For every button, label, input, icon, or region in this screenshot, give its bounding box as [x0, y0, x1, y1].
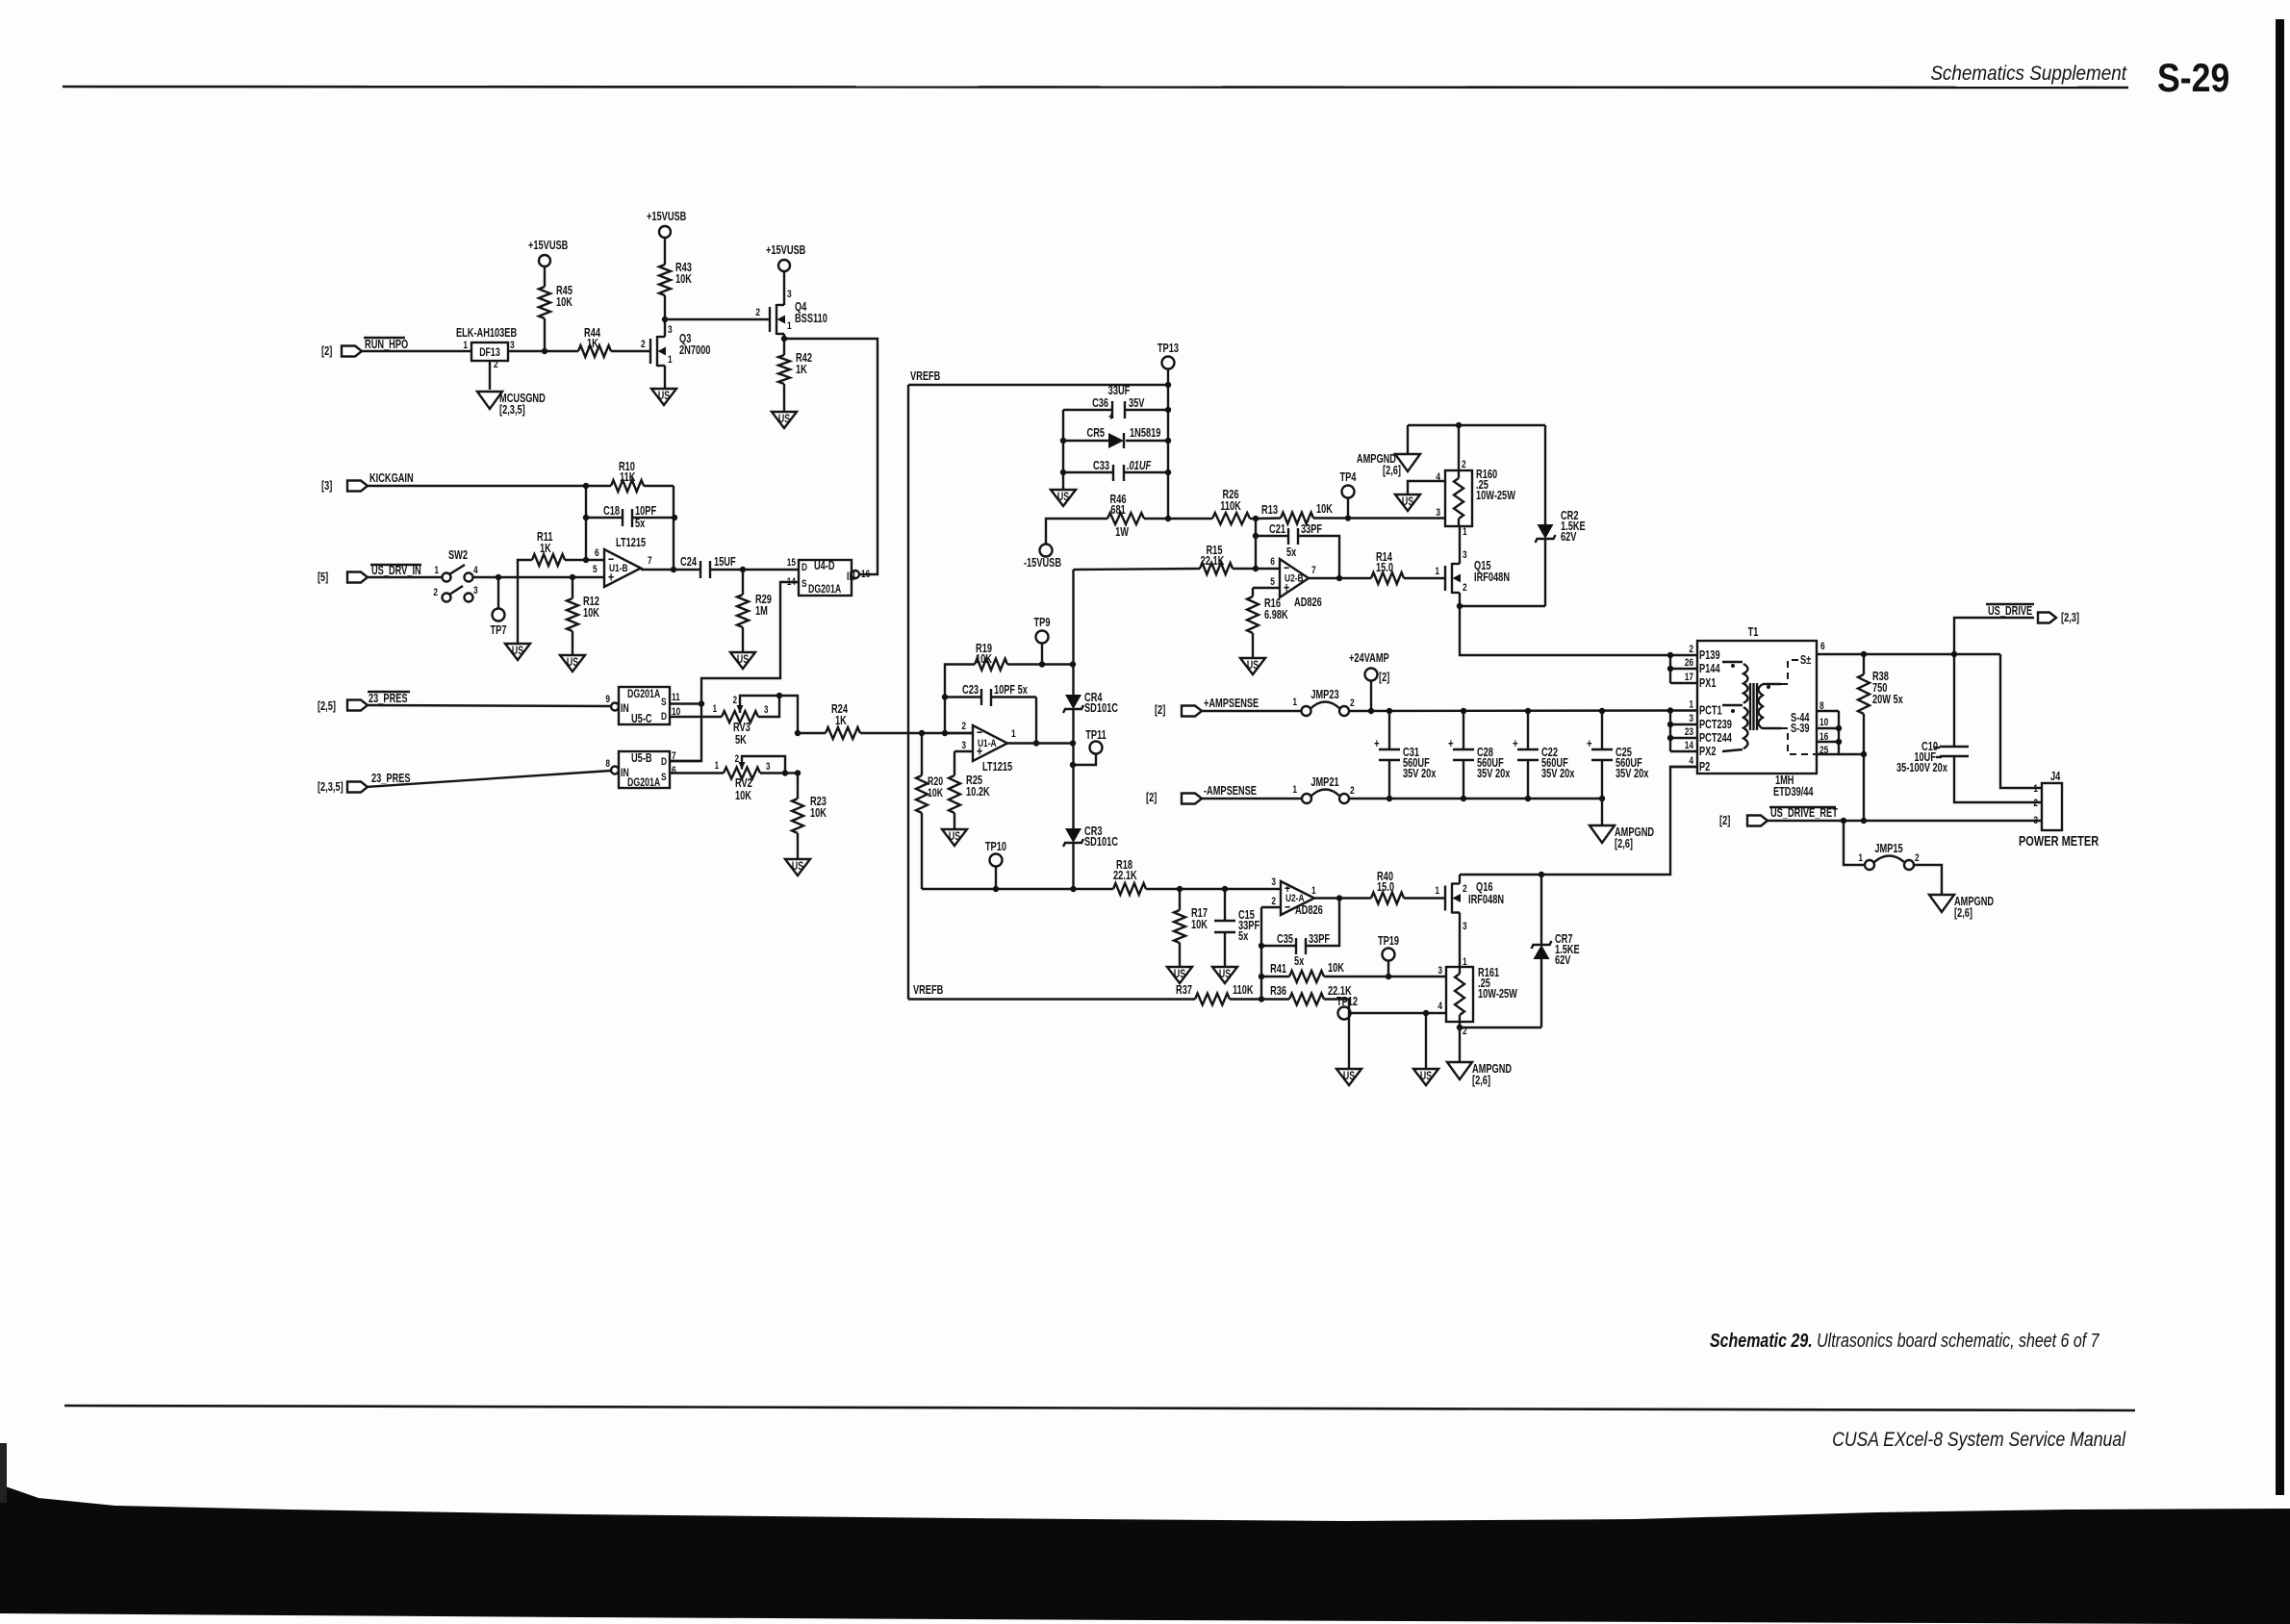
- capacitor C18 10PF 5%: [586, 517, 623, 519]
- ground US (TP12): [1413, 1069, 1438, 1085]
- T1 pin 25: [1817, 753, 1839, 755]
- svg-text:35V 20x: 35V 20x: [1616, 768, 1649, 781]
- potentiometer RV3 5K: [722, 711, 758, 723]
- svg-text:C18: C18: [603, 505, 620, 519]
- svg-text:LT1215: LT1215: [982, 761, 1012, 774]
- footer rule: [64, 1406, 2135, 1410]
- svg-text:RUN_HPO: RUN_HPO: [365, 339, 409, 352]
- svg-text:US_DRIVE_RET: US_DRIVE_RET: [1770, 807, 1838, 821]
- wire CR7 bottom to R161: [1460, 1027, 1541, 1028]
- svg-text:R37: R37: [1176, 984, 1192, 998]
- T1 secondary dashed lower: [1781, 728, 1817, 754]
- svg-text:PCT244: PCT244: [1699, 732, 1733, 746]
- svg-text:DF13: DF13: [479, 347, 500, 360]
- svg-text:TP7: TP7: [491, 624, 507, 638]
- resistor R46 681 1W: [1107, 513, 1144, 524]
- junction C22 bottom: [1525, 796, 1531, 801]
- capacitor C15 33PF 5%: [1224, 889, 1226, 921]
- wire R160 pin4 to ground: [1408, 481, 1445, 495]
- svg-text:1: 1: [1435, 566, 1439, 578]
- svg-text:US: US: [512, 646, 523, 658]
- wire drain row to P2: [1460, 767, 1697, 875]
- ground AMPGND (top): [1395, 454, 1420, 471]
- T1 secondary dashed upper: [1781, 660, 1798, 684]
- resistor R42 1K: [783, 339, 785, 355]
- junction RV2 wiper: [782, 770, 788, 775]
- junction R45 bottom: [542, 348, 547, 354]
- testpoint TP13: [1162, 357, 1175, 369]
- junction R20 top: [919, 730, 925, 736]
- junction R38 top: [1861, 651, 1867, 657]
- junction S-bus: [699, 700, 704, 706]
- junction +24VAMP tap: [1368, 708, 1374, 714]
- svg-text:9: 9: [605, 694, 610, 706]
- svg-text:RV3: RV3: [733, 722, 751, 735]
- wire U1-B out to C24: [641, 569, 674, 571]
- svg-text:[2]: [2]: [1379, 672, 1390, 685]
- junction rail/R160: [1456, 422, 1462, 428]
- svg-text:3: 3: [961, 740, 966, 752]
- capacitor C10 10UF 35-100V: [1940, 746, 1969, 748]
- svg-text:TP9: TP9: [1034, 617, 1051, 630]
- wire +AMPSENSE to JMP23: [1202, 710, 1301, 712]
- junction R38 bottom: [1861, 751, 1867, 757]
- svg-text:U4-D: U4-D: [814, 560, 835, 573]
- svg-text:C21: C21: [1269, 523, 1285, 537]
- svg-text:U5-C: U5-C: [631, 713, 652, 726]
- svg-text:S: S: [661, 772, 667, 784]
- svg-text:17: 17: [1685, 672, 1694, 684]
- ground AMPGND (caps): [1590, 825, 1615, 843]
- svg-text:10K: 10K: [810, 807, 827, 821]
- resistor R29 1M: [742, 570, 744, 595]
- power -15VUSB: [1040, 545, 1053, 557]
- svg-text:Schematics Supplement: Schematics Supplement: [1930, 63, 2127, 85]
- junction C28 bottom: [1461, 796, 1466, 801]
- svg-text:2: 2: [433, 587, 438, 599]
- testpoint TP19: [1387, 960, 1389, 977]
- ground US (R16): [1240, 658, 1265, 674]
- svg-text:SD101C: SD101C: [1084, 836, 1118, 850]
- wire pin25 row: [1839, 753, 1864, 755]
- svg-text:3: 3: [473, 585, 478, 597]
- svg-text:5x: 5x: [635, 518, 646, 531]
- svg-text:8: 8: [1819, 700, 1824, 713]
- svg-text:C35: C35: [1277, 933, 1293, 947]
- potentiometer RV2 10K: [724, 768, 760, 779]
- svg-text:10: 10: [1819, 717, 1829, 729]
- diode CR7 1.5KE 62V: [1540, 875, 1542, 945]
- svg-text:R36: R36: [1270, 985, 1286, 999]
- connector KICKGAIN: [347, 481, 368, 492]
- svg-text:P139: P139: [1699, 649, 1720, 663]
- T1 pin 4 P2: [1670, 766, 1697, 768]
- svg-text:1N5819: 1N5819: [1130, 427, 1160, 441]
- junction T1 PCT239: [1667, 722, 1673, 727]
- wire Q3 drain to Q4 gate: [665, 318, 770, 320]
- junction JMP15 tap: [1841, 818, 1846, 824]
- wire C23 to output: [1035, 698, 1037, 744]
- transistor Q15 IRF048N: [1444, 566, 1446, 591]
- junction out/C21: [1336, 575, 1342, 581]
- svg-text:3: 3: [1463, 549, 1467, 562]
- T1 pin 3 PCT239: [1670, 723, 1697, 725]
- svg-text:US: US: [1057, 492, 1069, 504]
- svg-text:10K: 10K: [928, 788, 944, 800]
- resistor R26 110K: [1168, 518, 1212, 520]
- junction R36 row: [1259, 996, 1264, 1002]
- diode CR2 1.5KE 62V: [1544, 425, 1546, 524]
- wire U1-A out to rail: [1007, 742, 1073, 744]
- svg-text:3: 3: [1463, 921, 1467, 933]
- svg-text:1: 1: [713, 702, 717, 715]
- op-amp U1-B LT1215: [604, 549, 641, 587]
- svg-text:4: 4: [1689, 755, 1693, 768]
- svg-text:PCT239: PCT239: [1699, 719, 1732, 732]
- junction R15/pin6: [1253, 566, 1259, 571]
- power +15VUSB (Q4): [778, 260, 790, 271]
- transistor Q3 2N7000: [649, 339, 651, 364]
- svg-text:7: 7: [1311, 565, 1316, 577]
- power +15VUSB (R43): [659, 226, 671, 238]
- svg-text:CR5: CR5: [1087, 427, 1105, 441]
- junction sec bus 16: [1836, 739, 1842, 745]
- wire R18 row left: [922, 888, 1113, 890]
- transistor Q16 IRF048N: [1444, 886, 1446, 911]
- wire R11 left to ground: [518, 560, 532, 644]
- wire Q15 source to T1 P139: [1460, 606, 1670, 655]
- junction CR5 left: [1060, 438, 1066, 444]
- svg-text:PX2: PX2: [1699, 746, 1716, 759]
- svg-text:[2,6]: [2,6]: [1383, 465, 1401, 478]
- T1 pin 17 PX1: [1670, 682, 1697, 684]
- wire VREFB top: [908, 384, 1169, 386]
- svg-text:1: 1: [668, 354, 673, 367]
- svg-text:15UF: 15UF: [714, 556, 736, 570]
- junction TP9: [1039, 661, 1045, 667]
- svg-text:2: 2: [733, 694, 737, 706]
- svg-text:3: 3: [1689, 713, 1693, 725]
- resistor R18 22.1K: [1113, 883, 1146, 895]
- T1 pin 1 PCT1: [1670, 709, 1697, 711]
- T1 pin 2 P139: [1670, 654, 1697, 656]
- svg-text:D: D: [801, 562, 807, 574]
- svg-text:R13: R13: [1261, 504, 1278, 518]
- svg-text:10W-25W: 10W-25W: [1478, 988, 1517, 1002]
- junction rail/RV2: [795, 770, 801, 775]
- svg-text:+15VUSB: +15VUSB: [766, 244, 805, 258]
- svg-text:3: 3: [787, 289, 792, 301]
- svg-text:[2,3]: [2,3]: [2061, 612, 2079, 625]
- svg-text:25: 25: [1819, 745, 1829, 757]
- junction C24/R29: [740, 567, 746, 572]
- pin8 bubble U5-B: [611, 767, 619, 774]
- wire pin6 row: [1864, 653, 2000, 655]
- op-amp U2-B AD826: [1280, 559, 1309, 597]
- svg-text:SW2: SW2: [448, 549, 468, 563]
- ground US (R12): [560, 655, 585, 672]
- svg-text:2: 2: [494, 359, 498, 371]
- svg-text:2: 2: [961, 721, 966, 733]
- svg-text:C36: C36: [1092, 397, 1108, 411]
- junction C36 right: [1165, 407, 1171, 413]
- wire JMP23 to caps: [1349, 709, 1670, 712]
- resistor R25 10.2K: [954, 751, 955, 775]
- T1 pin 10: [1817, 727, 1839, 729]
- ground US (R11): [505, 644, 530, 660]
- capacitor C35 33PF 5%: [1261, 945, 1296, 947]
- wire JMP15 stem: [1844, 821, 1865, 865]
- junction R41 row: [1259, 974, 1264, 979]
- resistor R15 22.1K: [1074, 569, 1201, 570]
- svg-text:S: S: [801, 578, 807, 591]
- svg-text:D: D: [661, 756, 667, 769]
- op-amp U2-A AD826: [1281, 881, 1314, 915]
- T1 left bus upper: [1669, 655, 1671, 683]
- svg-text:[2,3,5]: [2,3,5]: [318, 781, 343, 795]
- rail right (C36 cluster): [1167, 385, 1169, 519]
- junction C28 top: [1461, 708, 1466, 714]
- svg-text:5x: 5x: [1286, 546, 1297, 560]
- svg-text:10W-25W: 10W-25W: [1476, 490, 1515, 503]
- wire node down to C18: [585, 486, 587, 518]
- svg-text:ELK-AH103EB: ELK-AH103EB: [456, 327, 517, 341]
- svg-text:10K: 10K: [1316, 503, 1333, 517]
- wire Q16 source to R161: [1459, 913, 1461, 968]
- svg-text:US: US: [949, 831, 960, 844]
- wire RV3 to R24 rail: [779, 696, 798, 733]
- resistor R44 1K: [578, 345, 611, 357]
- wire pin2 lead: [945, 732, 973, 734]
- svg-text:JMP15: JMP15: [1874, 843, 1902, 856]
- diode CR4 SD101C: [1065, 695, 1081, 709]
- svg-text:1: 1: [1292, 784, 1297, 797]
- svg-text:11K: 11K: [620, 471, 635, 485]
- rail VREFB vertical: [907, 385, 909, 1000]
- svg-text:10K: 10K: [976, 653, 992, 667]
- svg-text:US: US: [1174, 969, 1185, 981]
- svg-text:1: 1: [1292, 697, 1297, 709]
- wire RUN_HPO to DF13: [362, 350, 471, 352]
- svg-text:110K: 110K: [1220, 500, 1241, 514]
- wire pin3 lead: [954, 750, 973, 752]
- analog switch U5-B DG201A: [619, 751, 670, 788]
- wire Q4 source down: [783, 334, 785, 339]
- diode CR5 1N5819: [1063, 440, 1108, 442]
- svg-text:US: US: [1247, 660, 1259, 672]
- junction C25 top: [1599, 708, 1605, 714]
- svg-text:JMP23: JMP23: [1310, 689, 1338, 702]
- right edge scan bar: [2276, 19, 2284, 1495]
- svg-text:TP11: TP11: [1085, 729, 1107, 743]
- resistor R17 10K: [1179, 889, 1181, 910]
- svg-text:6: 6: [1270, 556, 1275, 569]
- svg-text:ETD39/44: ETD39/44: [1773, 786, 1814, 799]
- testpoint TP4: [1347, 497, 1349, 519]
- svg-text:+15VUSB: +15VUSB: [528, 240, 568, 253]
- svg-text:33PF: 33PF: [1301, 523, 1322, 537]
- svg-text:PCT1: PCT1: [1699, 704, 1722, 718]
- svg-text:15: 15: [787, 557, 797, 570]
- op-amp U1-A LT1215: [973, 725, 1007, 761]
- svg-text:VREFB: VREFB: [913, 984, 943, 998]
- capacitor C36 33UF 35V: [1063, 409, 1112, 411]
- junction C22 top: [1525, 708, 1531, 714]
- svg-text:US_DRV_IN: US_DRV_IN: [371, 565, 421, 578]
- svg-text:20W 5x: 20W 5x: [1872, 694, 1904, 707]
- junction C15 top: [1222, 886, 1228, 892]
- wire U5-C pin10 to RV3: [670, 716, 722, 718]
- ground US (Q3): [651, 389, 676, 405]
- svg-text:US: US: [778, 414, 790, 426]
- wire C25 to AMPGND: [1601, 799, 1603, 825]
- svg-text:[2]: [2]: [321, 345, 333, 359]
- svg-text:10PF: 10PF: [635, 505, 656, 519]
- junction R19/rail: [1070, 661, 1076, 667]
- svg-text:10PF 5x: 10PF 5x: [994, 684, 1029, 698]
- svg-text:2: 2: [1350, 698, 1355, 710]
- svg-text:1W: 1W: [1115, 526, 1129, 540]
- wire DF13 to R44: [508, 350, 578, 352]
- svg-text:2: 2: [2033, 798, 2038, 810]
- svg-text:S: S: [661, 697, 667, 709]
- junction TP7: [496, 574, 501, 580]
- resistor R14 15.0: [1371, 572, 1404, 584]
- junction C31 top: [1387, 708, 1392, 714]
- svg-text:6: 6: [672, 765, 676, 777]
- svg-text:VREFB: VREFB: [910, 370, 940, 384]
- wire US_DRIVE_RET to J4 pin3: [1768, 820, 2042, 822]
- connector 23_PRES (lower): [347, 782, 368, 793]
- junction T1 PCT244: [1667, 735, 1673, 741]
- svg-text:4: 4: [1438, 1001, 1442, 1013]
- wire C18 to pin6: [585, 518, 587, 560]
- junction T1 PCT1: [1667, 707, 1673, 713]
- capacitor C22 560UF 35V 20%: [1527, 711, 1529, 749]
- wire CR2 bottom to source: [1460, 605, 1545, 607]
- resistor R23 10K: [797, 774, 799, 799]
- junction C35 row: [1259, 943, 1264, 949]
- svg-text:33PF: 33PF: [1309, 933, 1330, 947]
- svg-text:US: US: [1420, 1071, 1432, 1083]
- pin16 bubble U4-D: [852, 571, 859, 578]
- svg-text:4: 4: [473, 565, 478, 577]
- junction CR7 top: [1539, 872, 1544, 877]
- junction C18 left: [583, 515, 589, 520]
- svg-text:14: 14: [1685, 740, 1694, 752]
- wire SW2 to pin5: [473, 576, 604, 578]
- ground US (R160): [1395, 495, 1420, 511]
- junction C31 bottom: [1387, 796, 1392, 801]
- svg-text:[2]: [2]: [1146, 792, 1158, 805]
- junction R161 pin2: [1457, 1025, 1463, 1030]
- junction C33 right: [1165, 469, 1171, 475]
- wire pin6 row corner to J4 pin1: [2000, 654, 2042, 788]
- resistor R37 110K: [908, 998, 1195, 1000]
- junction Q4 source/R42: [781, 336, 787, 342]
- svg-text:23: 23: [1685, 726, 1694, 739]
- testpoint TP9: [1041, 643, 1043, 665]
- svg-text:US: US: [567, 657, 578, 670]
- capacitor C28 560UF 35V 20%: [1463, 711, 1464, 749]
- ferrite-bead FB DF13 ELK-AH103EB: [471, 343, 508, 361]
- wire KICKGAIN to node: [368, 485, 586, 487]
- svg-text:35-100V 20x: 35-100V 20x: [1896, 762, 1948, 775]
- T1 pin 23 PCT244: [1670, 737, 1697, 739]
- ground US (R29): [730, 652, 755, 669]
- svg-text:P2: P2: [1699, 761, 1710, 774]
- svg-text:10K: 10K: [1191, 919, 1208, 932]
- connector RUN_HPO: [342, 346, 362, 357]
- power resistor R160 .25 10W-25W: [1445, 470, 1472, 526]
- svg-text:Schematic 29. Ultrasonics boa: Schematic 29. Ultrasonics board schemati…: [1710, 1330, 2099, 1351]
- T1 pin 6: [1817, 653, 1864, 655]
- junction out/C35: [1336, 895, 1342, 901]
- wire Q4 source to U4-D pin16: [784, 339, 878, 574]
- wire pin2 lead U2-A: [1261, 906, 1281, 908]
- svg-text:IN: IN: [621, 703, 629, 716]
- junction sec bus 10: [1836, 725, 1842, 731]
- svg-text:US_DRIVE: US_DRIVE: [1988, 605, 2032, 619]
- power +15VUSB (R45): [539, 255, 550, 266]
- svg-text:[2,6]: [2,6]: [1472, 1075, 1490, 1088]
- svg-text:C33: C33: [1093, 460, 1109, 473]
- analog switch U4-D DG201A: [799, 560, 852, 596]
- junction R26/R13: [1253, 516, 1259, 521]
- svg-text:DG201A: DG201A: [808, 584, 842, 596]
- junction C33 left: [1060, 469, 1066, 475]
- junction rail/R24: [795, 730, 801, 736]
- svg-text:R41: R41: [1270, 963, 1286, 977]
- svg-text:10K: 10K: [556, 296, 572, 310]
- svg-text:2: 2: [1350, 785, 1355, 798]
- svg-text:1: 1: [787, 320, 792, 333]
- T1 primary winding lower: [1722, 704, 1743, 706]
- svg-text:[2]: [2]: [1155, 704, 1166, 718]
- svg-text:+15VUSB: +15VUSB: [647, 211, 686, 224]
- svg-text:US: US: [1219, 969, 1231, 981]
- svg-text:+: +: [1587, 738, 1592, 751]
- wire DF13 pin2 down: [489, 361, 491, 390]
- testpoint TP11: [1090, 742, 1103, 754]
- svg-text:10K: 10K: [675, 273, 692, 287]
- power resistor R161 .25 10W-25W: [1446, 967, 1473, 1022]
- resistor R24 1K: [798, 732, 826, 734]
- junction out/rail: [1070, 740, 1076, 746]
- resistor R19 10K: [975, 659, 1007, 671]
- wire JMP15 to AMPGND: [1914, 865, 1942, 895]
- svg-text:IRF048N: IRF048N: [1474, 571, 1510, 585]
- wire U2-B out: [1309, 577, 1371, 579]
- svg-text:C24: C24: [680, 556, 698, 570]
- svg-text:+AMPSENSE: +AMPSENSE: [1204, 698, 1259, 711]
- svg-text:US: US: [1402, 496, 1413, 509]
- ground US (R17): [1167, 967, 1192, 983]
- junction rail/R18row: [1070, 886, 1076, 892]
- svg-text:U5-B: U5-B: [631, 752, 652, 766]
- svg-text:BSS110: BSS110: [795, 313, 827, 326]
- junction TP4: [1345, 515, 1351, 520]
- svg-text:6.98K: 6.98K: [1264, 609, 1288, 622]
- diode CR3 SD101C: [1065, 828, 1081, 843]
- wire pin6 lead U2-B: [1256, 568, 1280, 570]
- svg-text:+: +: [1448, 738, 1454, 751]
- svg-text:TP4: TP4: [1339, 471, 1357, 485]
- wire Q4 drain up: [783, 271, 785, 305]
- T1 pin 8: [1817, 710, 1839, 712]
- capacitor C33 .01UF: [1063, 471, 1113, 473]
- svg-text:S±: S±: [1800, 654, 1811, 668]
